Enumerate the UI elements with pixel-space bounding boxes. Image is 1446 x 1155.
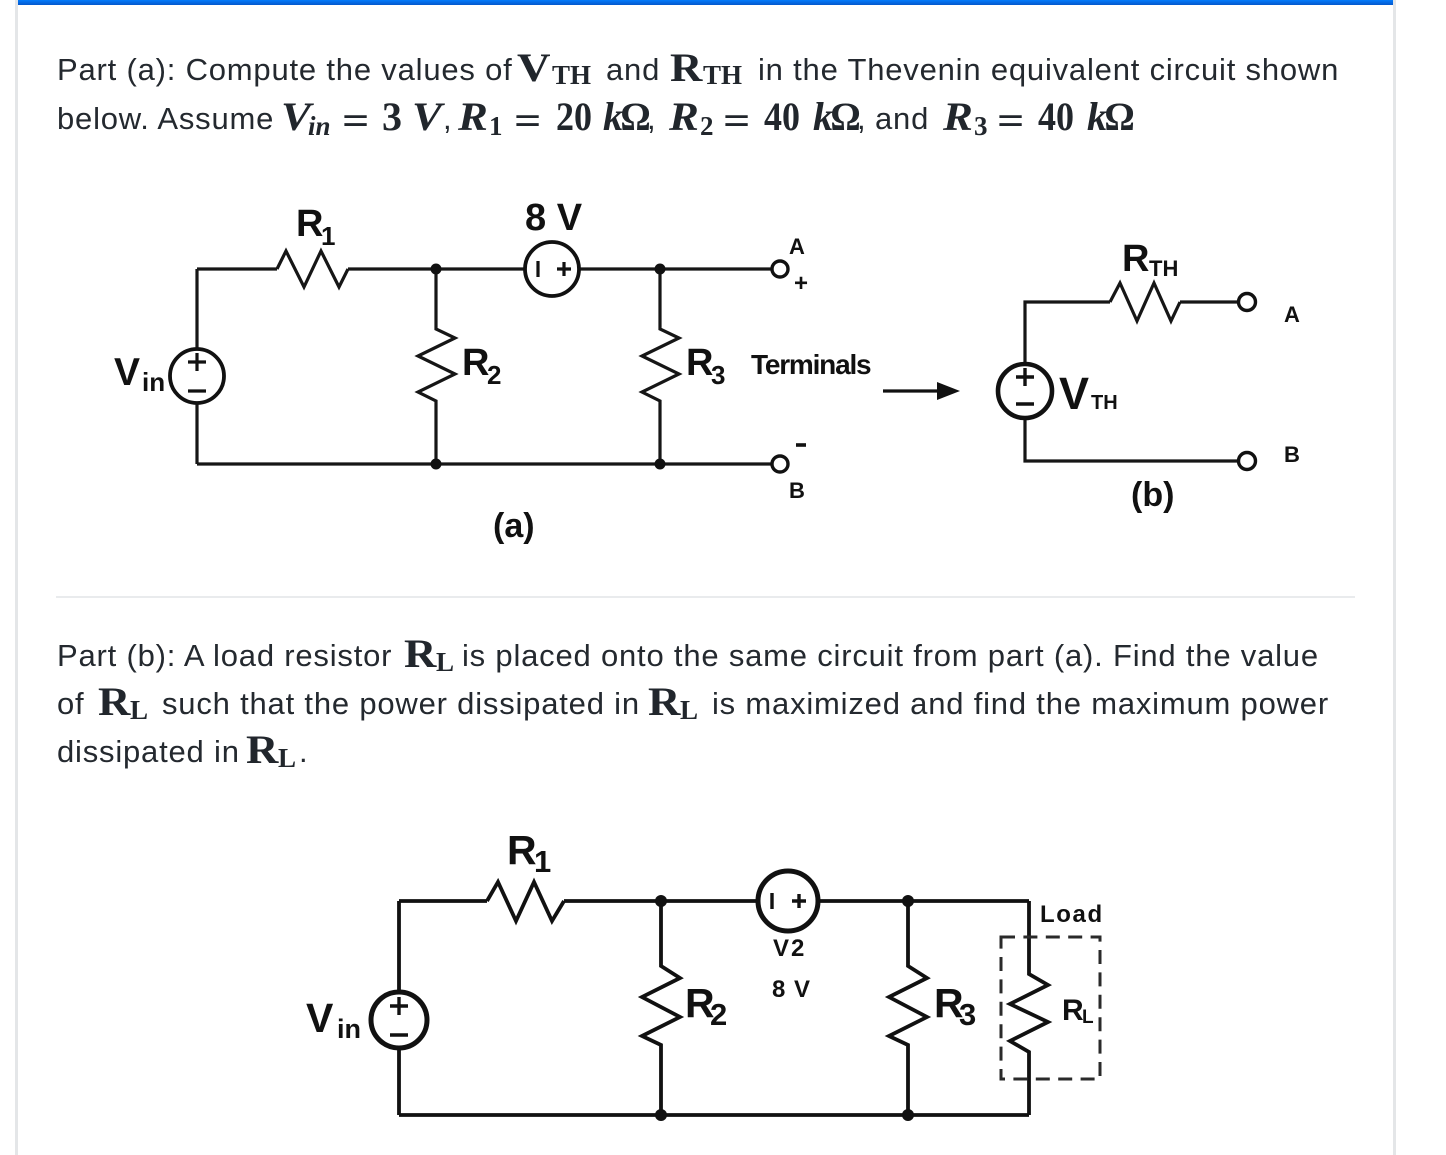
svg-text:R: R <box>1062 994 1084 1027</box>
svg-text:R: R <box>1122 238 1149 280</box>
paragraph b line 1 <box>57 638 392 674</box>
svg-text:R: R <box>507 827 537 873</box>
svg-text:in: in <box>337 1014 361 1044</box>
resistor RTH <box>1110 283 1180 321</box>
paragraph a line 2 <box>57 101 274 137</box>
svg-text:V: V <box>1059 368 1089 419</box>
label - (terminal B polarity) <box>796 443 806 447</box>
arrow between circuits <box>883 382 960 400</box>
labels part b circuit <box>306 827 1104 1044</box>
top blue bar <box>18 0 1393 5</box>
voltage source V2 <box>758 871 818 931</box>
svg-text:(a): (a) <box>493 507 535 545</box>
svg-text:B: B <box>1284 442 1300 467</box>
svg-text:(b): (b) <box>1131 476 1174 514</box>
svg-text:TH: TH <box>1149 256 1178 281</box>
resistor R2 (part b) <box>642 901 680 1115</box>
paragraph a line 1 <box>57 52 513 88</box>
CIRCUIT B <box>1025 283 1238 461</box>
horizontal separator <box>56 596 1355 598</box>
wire: top left segment Vin to R1 <box>197 267 277 270</box>
resistor RL <box>1010 901 1048 1115</box>
resistor R2 <box>418 269 455 464</box>
load dashed box <box>1001 937 1100 1079</box>
svg-text:1: 1 <box>321 221 335 251</box>
wire: VTH top to RTH <box>1025 302 1110 364</box>
svg-text:R: R <box>462 342 489 384</box>
wire: left branch vertical <box>195 269 198 464</box>
labels circuit a <box>114 197 871 545</box>
svg-text:B: B <box>789 478 805 503</box>
svg-text:1: 1 <box>534 844 551 879</box>
terminal B (circuit a) <box>772 456 788 472</box>
terminal A (circuit a) <box>772 261 788 277</box>
wire: bottom wire <box>197 462 772 465</box>
wire: left branch vertical <box>397 901 401 1115</box>
resistor R3 <box>642 269 679 464</box>
svg-text:8 V: 8 V <box>525 197 583 239</box>
node: junction dots circuit a <box>431 264 666 470</box>
wire: bottom wire <box>399 1113 1029 1117</box>
wire: 8V source to terminal A <box>579 267 772 270</box>
wire: R1 to 8V source <box>348 267 525 270</box>
svg-text:in: in <box>142 367 165 397</box>
svg-text:2: 2 <box>487 360 501 390</box>
node: junction dots part b <box>655 895 914 1121</box>
svg-text:L: L <box>1082 1007 1094 1028</box>
terminal A (circuit b) <box>1239 294 1256 311</box>
CIRCUIT C (part b schematic) <box>399 882 1048 1115</box>
wire: V2 to right corner <box>819 899 1029 903</box>
svg-text:R: R <box>296 203 323 245</box>
svg-text:Load: Load <box>1040 901 1104 928</box>
svg-text:V2: V2 <box>773 935 806 962</box>
resistor R1 <box>277 251 348 287</box>
svg-text:V: V <box>306 995 334 1041</box>
CIRCUIT A <box>197 251 772 464</box>
wire: RTH to terminal A <box>1180 300 1238 303</box>
svg-text:A: A <box>789 234 805 259</box>
svg-text:+: + <box>794 270 808 297</box>
wire: R1 to V2 <box>564 899 757 903</box>
voltage source Vin (part b) <box>371 992 427 1048</box>
svg-text:8 V: 8 V <box>772 976 811 1003</box>
voltage source VTH <box>998 364 1052 418</box>
svg-text:R: R <box>686 342 713 384</box>
terminal B (circuit b) <box>1239 453 1256 470</box>
svg-text:V: V <box>114 351 140 394</box>
svg-text:A: A <box>1284 302 1300 327</box>
voltage source 8V <box>525 242 579 296</box>
svg-text:TH: TH <box>1091 392 1118 414</box>
resistor R1 (part b) <box>487 882 564 921</box>
labels circuit b <box>1059 238 1300 514</box>
resistor R3 (part b) <box>889 901 927 1115</box>
svg-text:2: 2 <box>710 997 727 1032</box>
left page border <box>15 0 18 1155</box>
svg-text:3: 3 <box>959 997 976 1032</box>
right page border <box>1393 0 1396 1155</box>
paragraph b line 2 <box>57 686 84 722</box>
svg-text:Terminals: Terminals <box>751 349 871 380</box>
svg-text:3: 3 <box>711 360 725 390</box>
wire: top left segment <box>399 899 487 903</box>
voltage source Vin (circuit a) <box>170 349 224 403</box>
paragraph b line 3 <box>57 734 240 770</box>
wire: VTH bottom to terminal B <box>1025 418 1238 461</box>
